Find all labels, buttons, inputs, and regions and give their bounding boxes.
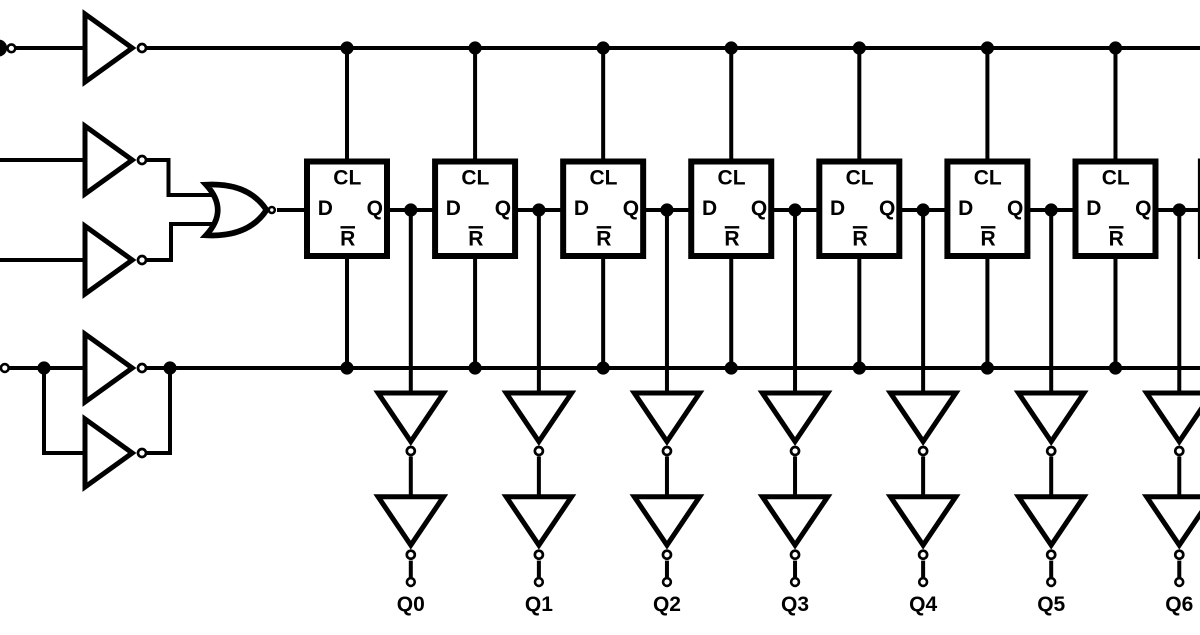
wire chain 1 interstage bbox=[537, 457, 541, 500]
wire U5 output bbox=[146, 366, 172, 370]
inverter chain 5 stage 1 bbox=[1019, 393, 1084, 455]
terminal Q6 bbox=[1175, 578, 1183, 586]
terminal Q5 bbox=[1047, 578, 1055, 586]
inverter chain 6 stage 1 bbox=[1147, 393, 1200, 455]
wire CL to FF2 bbox=[473, 48, 477, 163]
wire chain 3 output bbox=[793, 561, 797, 577]
junction clock rail FF3 bbox=[597, 41, 610, 54]
svg-text:CL: CL bbox=[1102, 167, 1130, 190]
inverter chain 3 stage 2 bbox=[762, 497, 827, 559]
wire NOR output to FF1 D bbox=[277, 208, 308, 212]
svg-text:CL: CL bbox=[589, 167, 617, 190]
wire input A bbox=[0, 158, 90, 162]
D flip-flop FF1 bbox=[307, 162, 387, 257]
D flip-flop FF2 bbox=[435, 162, 515, 257]
input buffer U2 bbox=[85, 126, 146, 194]
junction reset rail FF3 bbox=[597, 361, 610, 374]
wire FF6 R to reset rail bbox=[985, 255, 989, 368]
clock input terminal bbox=[7, 44, 15, 52]
wire Q1 drop bbox=[537, 210, 541, 395]
junction reset buffers bbox=[163, 361, 176, 374]
junction Q2 node bbox=[660, 203, 673, 216]
wire FF1 R to reset rail bbox=[345, 255, 349, 368]
inverter chain 4 stage 2 bbox=[890, 497, 955, 559]
svg-text:R: R bbox=[724, 228, 739, 251]
svg-text:Q: Q bbox=[367, 197, 383, 220]
wire chain 2 interstage bbox=[665, 457, 669, 500]
junction clock rail FF7 bbox=[1109, 41, 1122, 54]
junction Q6 node bbox=[1173, 203, 1186, 216]
svg-text:R: R bbox=[981, 228, 996, 251]
wire chain 6 output bbox=[1177, 561, 1181, 577]
wire FF3 R to reset rail bbox=[601, 255, 605, 368]
wire FF1 Q to next D bbox=[386, 208, 436, 212]
svg-text:R: R bbox=[1109, 228, 1124, 251]
wire chain 5 interstage bbox=[1049, 457, 1053, 500]
wire CL to FF6 bbox=[985, 48, 989, 163]
junction clock rail FF4 bbox=[725, 41, 738, 54]
svg-text:D: D bbox=[446, 197, 461, 220]
wire chain 2 output bbox=[665, 561, 669, 577]
junction Q0 node bbox=[404, 203, 417, 216]
wire U2 output to NOR bbox=[146, 160, 216, 195]
wire Q0 drop bbox=[409, 210, 413, 395]
junction reset rail FF2 bbox=[468, 361, 481, 374]
junction reset rail FF7 bbox=[1109, 361, 1122, 374]
svg-text:Q: Q bbox=[623, 197, 639, 220]
inverter chain 2 stage 1 bbox=[634, 393, 699, 455]
wire CL to FF7 bbox=[1113, 48, 1117, 163]
svg-text:D: D bbox=[574, 197, 589, 220]
D flip-flop FF6 bbox=[947, 162, 1027, 257]
svg-text:D: D bbox=[702, 197, 717, 220]
wire input B bbox=[0, 258, 90, 262]
junction reset rail FF1 bbox=[340, 361, 353, 374]
wire FF3 Q to next D bbox=[642, 208, 692, 212]
wire Q2 drop bbox=[665, 210, 669, 395]
junction reset rail FF5 bbox=[853, 361, 866, 374]
wire chain 3 interstage bbox=[793, 457, 797, 500]
clock input stub bbox=[0, 40, 7, 57]
inverter chain 5 stage 2 bbox=[1019, 497, 1084, 559]
svg-text:Q: Q bbox=[495, 197, 511, 220]
wire reset terminal to buffer bbox=[9, 366, 90, 370]
D flip-flop FF7 bbox=[1075, 162, 1155, 257]
wire chain 6 interstage bbox=[1177, 457, 1181, 500]
wire U6 output up bbox=[146, 368, 170, 453]
wire chain 4 interstage bbox=[921, 457, 925, 500]
wire FF5 R to reset rail bbox=[857, 255, 861, 368]
D flip-flop FF3 bbox=[563, 162, 643, 257]
wire CL to FF4 bbox=[729, 48, 733, 163]
inverter chain 0 stage 1 bbox=[378, 393, 443, 455]
junction Q4 node bbox=[917, 203, 930, 216]
D flip-flop FF5 bbox=[819, 162, 899, 257]
reset buffer U5 bbox=[85, 334, 146, 402]
junction clock rail FF2 bbox=[468, 41, 481, 54]
reset buffer U6 bbox=[85, 419, 146, 487]
svg-text:R: R bbox=[468, 228, 483, 251]
svg-text:Q0: Q0 bbox=[397, 593, 425, 616]
wire chain 1 output bbox=[537, 561, 541, 577]
wire chain 0 interstage bbox=[409, 457, 413, 500]
inverter chain 2 stage 2 bbox=[634, 497, 699, 559]
input buffer U3 bbox=[85, 226, 146, 294]
wire FF7 Q to next D bbox=[1154, 208, 1200, 212]
junction Q5 node bbox=[1045, 203, 1058, 216]
wire Q6 drop bbox=[1177, 210, 1181, 395]
junction reset input branch bbox=[37, 361, 50, 374]
junction Q1 node bbox=[532, 203, 545, 216]
wire chain 5 output bbox=[1049, 561, 1053, 577]
inverter chain 3 stage 1 bbox=[762, 393, 827, 455]
terminal Q1 bbox=[535, 578, 543, 586]
wire FF5 Q to next D bbox=[898, 208, 948, 212]
svg-text:CL: CL bbox=[974, 167, 1002, 190]
inverter chain 1 stage 2 bbox=[506, 497, 571, 559]
svg-text:R: R bbox=[852, 228, 867, 251]
terminal Q2 bbox=[663, 578, 671, 586]
wire FF6 Q to next D bbox=[1026, 208, 1076, 212]
clock buffer U1 bbox=[85, 14, 146, 82]
wire Q4 drop bbox=[921, 210, 925, 395]
wire reset branch down bbox=[44, 368, 90, 453]
NOR gate U4 bbox=[206, 185, 275, 236]
svg-text:D: D bbox=[830, 197, 845, 220]
wire FF2 R to reset rail bbox=[473, 255, 477, 368]
svg-text:CL: CL bbox=[461, 167, 489, 190]
svg-text:R: R bbox=[340, 228, 355, 251]
junction Q3 node bbox=[788, 203, 801, 216]
wire clock terminal to buffer bbox=[15, 46, 90, 50]
inverter chain 0 stage 2 bbox=[378, 497, 443, 559]
svg-text:R: R bbox=[596, 228, 611, 251]
svg-text:D: D bbox=[318, 197, 333, 220]
svg-text:Q: Q bbox=[879, 197, 895, 220]
terminal Q0 bbox=[407, 578, 415, 586]
wire Q3 drop bbox=[793, 210, 797, 395]
wire chain 0 output bbox=[409, 561, 413, 577]
svg-text:Q4: Q4 bbox=[909, 593, 937, 616]
junction clock rail FF1 bbox=[340, 41, 353, 54]
svg-text:D: D bbox=[1086, 197, 1101, 220]
svg-text:Q2: Q2 bbox=[653, 593, 681, 616]
svg-text:CL: CL bbox=[846, 167, 874, 190]
svg-text:Q6: Q6 bbox=[1165, 593, 1193, 616]
reset rail bbox=[170, 366, 1200, 370]
svg-text:Q1: Q1 bbox=[525, 593, 553, 616]
junction reset rail FF4 bbox=[725, 361, 738, 374]
terminal Q3 bbox=[791, 578, 799, 586]
clock rail bbox=[146, 46, 1200, 50]
inverter chain 6 stage 2 bbox=[1147, 497, 1200, 559]
junction clock rail FF6 bbox=[981, 41, 994, 54]
terminal Q4 bbox=[919, 578, 927, 586]
wire CL to FF5 bbox=[857, 48, 861, 163]
wire Q5 drop bbox=[1049, 210, 1053, 395]
inverter chain 4 stage 1 bbox=[890, 393, 955, 455]
junction reset rail FF6 bbox=[981, 361, 994, 374]
wire CL to FF3 bbox=[601, 48, 605, 163]
inverter chain 1 stage 1 bbox=[506, 393, 571, 455]
junction clock rail FF5 bbox=[853, 41, 866, 54]
wire FF4 R to reset rail bbox=[729, 255, 733, 368]
wire FF4 Q to next D bbox=[770, 208, 820, 212]
wire U3 output to NOR bbox=[146, 224, 216, 260]
reset input terminal bbox=[1, 364, 9, 372]
D flip-flop FF4 bbox=[691, 162, 771, 257]
svg-text:CL: CL bbox=[333, 167, 361, 190]
svg-text:CL: CL bbox=[718, 167, 746, 190]
wire FF7 R to reset rail bbox=[1113, 255, 1117, 368]
wire FF2 Q to next D bbox=[514, 208, 564, 212]
wire chain 4 output bbox=[921, 561, 925, 577]
svg-text:Q5: Q5 bbox=[1037, 593, 1065, 616]
wire CL to FF1 bbox=[345, 48, 349, 163]
svg-text:Q: Q bbox=[1135, 197, 1151, 220]
svg-text:D: D bbox=[958, 197, 973, 220]
svg-text:Q: Q bbox=[751, 197, 767, 220]
svg-text:Q3: Q3 bbox=[781, 593, 809, 616]
svg-text:Q: Q bbox=[1007, 197, 1023, 220]
